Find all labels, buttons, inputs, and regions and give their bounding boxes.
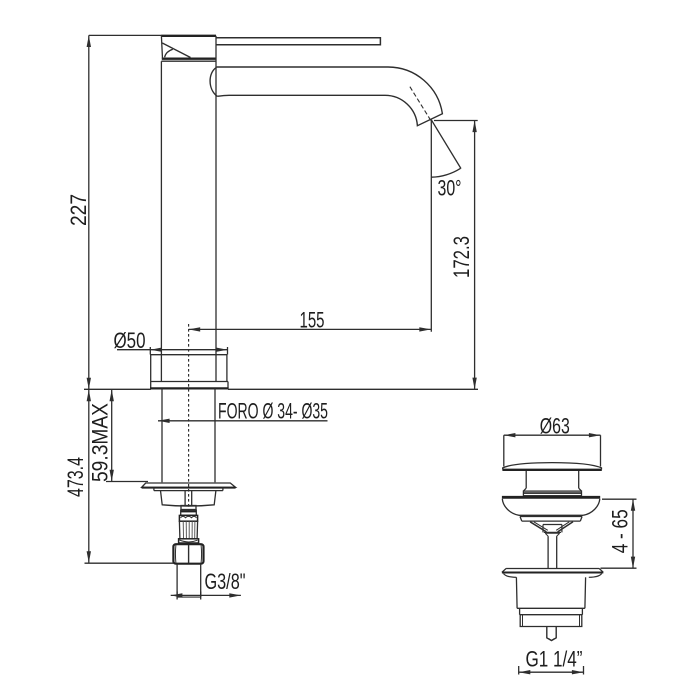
braided hose: [179, 521, 197, 539]
counter line left: [84, 388, 151, 390]
svg-text:473.4: 473.4: [63, 457, 88, 497]
G1 1/4 dim: [518, 666, 520, 675]
body section 1: [516, 577, 585, 608]
tip: [547, 627, 556, 641]
4-65 dim: [602, 498, 637, 500]
washer: [142, 483, 236, 487]
spout: [217, 67, 443, 126]
59.3MAX dim: [111, 390, 113, 482]
lower washer: [502, 569, 603, 573]
hex nut: [173, 544, 203, 564]
473.4 dim: [88, 390, 90, 563]
svg-text:FORO Ø 34- Ø35: FORO Ø 34- Ø35: [218, 398, 328, 423]
centerline of body (dashed): [188, 324, 190, 512]
counter line right: [228, 388, 478, 390]
trumpet sides: [502, 499, 519, 516]
30 deg line: [431, 120, 461, 169]
FORO leader: [158, 420, 328, 422]
svg-text:59.3MAX: 59.3MAX: [87, 403, 112, 482]
svg-text:Ø63: Ø63: [540, 414, 570, 439]
crimp ring top: [179, 515, 197, 521]
G3/8 dim: [171, 594, 241, 596]
lever bar: [216, 38, 380, 45]
trumpet rim: [502, 496, 600, 499]
spout centerline dashed: [410, 87, 431, 122]
svg-text:Ø50: Ø50: [114, 328, 146, 353]
base flange: [151, 355, 227, 382]
172.3 top extension: [434, 120, 478, 122]
stem: [547, 536, 549, 568]
tube G3/8: [176, 564, 178, 597]
svg-text:227: 227: [66, 194, 91, 226]
threaded section: [520, 615, 582, 627]
vertical line from spout tip: [430, 120, 432, 332]
body: [161, 60, 216, 62]
svg-text:G3/8": G3/8": [205, 569, 246, 594]
dome cap: [503, 463, 602, 470]
172.3 dim line: [474, 121, 476, 390]
neck collar: [523, 488, 581, 491]
neck: [525, 471, 527, 488]
155 dim line: [189, 328, 431, 330]
svg-text:30°: 30°: [438, 176, 462, 201]
dimension 227 extension line top: [89, 34, 162, 36]
svg-text:155: 155: [300, 307, 325, 332]
small cup: [543, 525, 562, 533]
svg-text:4 - 65: 4 - 65: [607, 509, 632, 553]
dimension 227 line: [88, 35, 90, 389]
mounting nut: [153, 488, 155, 491]
svg-text:172.3: 172.3: [449, 236, 474, 278]
D63 dim: [504, 434, 601, 436]
handle cap: [161, 36, 216, 59]
hose collar 2: [181, 510, 197, 515]
spout joint arc: [210, 67, 217, 96]
base plate: [151, 381, 228, 383]
strainer cone: [530, 522, 573, 532]
hose collar 1: [181, 506, 196, 510]
angle arc: [431, 168, 460, 177]
crimp ring bottom: [179, 539, 199, 543]
shank: [161, 389, 163, 483]
lever wedge inside cap: [162, 43, 190, 58]
svg-text:G1 1/4”: G1 1/4”: [526, 647, 583, 672]
D50 dim: [149, 347, 151, 355]
body section 2: [520, 608, 583, 614]
